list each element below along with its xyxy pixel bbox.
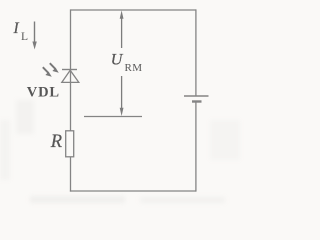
- wire right upper: [195, 9, 197, 95]
- photodiode VDL: [43, 63, 79, 82]
- voltage arrow URM double-headed: [120, 10, 124, 116]
- battery short plate: [192, 100, 202, 102]
- label IL: [13, 20, 29, 43]
- voltage reference bar: [84, 116, 142, 118]
- photodiode cathode bar: [62, 69, 77, 71]
- photodiode anode triangle: [62, 70, 79, 82]
- svg-text:RM: RM: [125, 62, 143, 74]
- battery: [184, 96, 209, 102]
- wire top: [71, 9, 197, 11]
- light arrow 2: [50, 63, 59, 72]
- svg-text:I: I: [13, 20, 20, 37]
- label URM: [111, 52, 143, 75]
- wire left upper: [70, 9, 72, 130]
- svg-text:U: U: [111, 52, 124, 69]
- current arrow IL: [32, 22, 36, 50]
- svg-text:L: L: [21, 31, 28, 43]
- battery long plate: [184, 95, 209, 97]
- wire right lower: [195, 102, 197, 192]
- light arrow 1: [43, 67, 52, 77]
- svg-text:R: R: [50, 132, 62, 152]
- wire left lower: [70, 157, 72, 192]
- wire bottom: [70, 190, 196, 192]
- resistor R: [66, 131, 74, 157]
- svg-text:VDL: VDL: [27, 85, 60, 101]
